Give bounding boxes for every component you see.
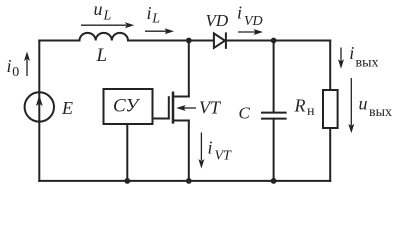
arrow u_L — [81, 24, 126, 26]
junction dot bottom source node — [186, 178, 192, 184]
source E circle — [25, 92, 54, 121]
wire gate lead — [153, 118, 169, 120]
arrow i_0 — [26, 60, 28, 76]
control unit CU box — [104, 89, 153, 124]
svg-text:E: E — [61, 98, 73, 118]
transistor VT source lead — [173, 120, 189, 122]
svg-text:L: L — [96, 45, 108, 66]
junction dot bottom capacitor node — [271, 178, 277, 184]
arrow i_L — [145, 30, 166, 32]
svg-text:i: i — [237, 3, 242, 23]
svg-text:C: C — [239, 104, 251, 123]
svg-text:VD: VD — [206, 11, 229, 30]
svg-text:u: u — [359, 93, 368, 113]
source E arrow — [36, 95, 43, 106]
wire left branch — [38, 41, 40, 181]
wire bottom — [39, 180, 330, 182]
wire CU to bottom — [126, 124, 128, 181]
svg-text:L: L — [103, 8, 112, 23]
transistor VT drain lead — [173, 96, 189, 98]
wire source branch — [188, 121, 190, 181]
junction dot bottom CU node — [124, 178, 130, 184]
svg-text:L: L — [151, 12, 160, 27]
svg-text:вых: вых — [356, 56, 379, 71]
transistor VT channel bar — [172, 93, 175, 123]
resistor R_n body — [323, 90, 338, 128]
wire inductor to diode — [128, 40, 214, 42]
arrow u_vyh — [350, 78, 352, 125]
transistor VT gate bar — [168, 97, 170, 118]
transistor VT pointer arrow — [184, 107, 196, 109]
svg-text:i: i — [349, 43, 354, 63]
svg-text:i: i — [147, 3, 152, 23]
junction dot top drain node — [186, 38, 192, 44]
svg-text:0: 0 — [12, 65, 19, 80]
diode VD — [214, 33, 226, 48]
wire capacitor branch lower — [273, 119, 275, 181]
wire right branch lower — [329, 128, 331, 181]
svg-text:СУ: СУ — [113, 96, 140, 117]
svg-text:i: i — [7, 56, 12, 76]
capacitor C plates — [262, 113, 286, 119]
wire right branch upper — [329, 41, 331, 91]
inductor L — [80, 33, 129, 41]
svg-text:i: i — [208, 137, 213, 157]
svg-text:н: н — [307, 104, 315, 119]
svg-text:u: u — [94, 0, 103, 19]
wire diode to top-right corner — [226, 40, 330, 42]
wire top left segment — [39, 40, 79, 42]
junction dot top capacitor node — [271, 38, 277, 44]
svg-text:VD: VD — [244, 14, 263, 29]
svg-text:R: R — [294, 96, 306, 116]
svg-text:VT: VT — [215, 148, 233, 163]
arrow i_VD — [238, 31, 255, 33]
svg-text:вых: вых — [369, 105, 392, 120]
arrow i_VT — [200, 133, 202, 161]
wire drain branch — [188, 41, 190, 97]
arrow i_vyh — [340, 48, 342, 61]
wire capacitor branch upper — [273, 41, 275, 113]
svg-text:VT: VT — [199, 98, 222, 118]
